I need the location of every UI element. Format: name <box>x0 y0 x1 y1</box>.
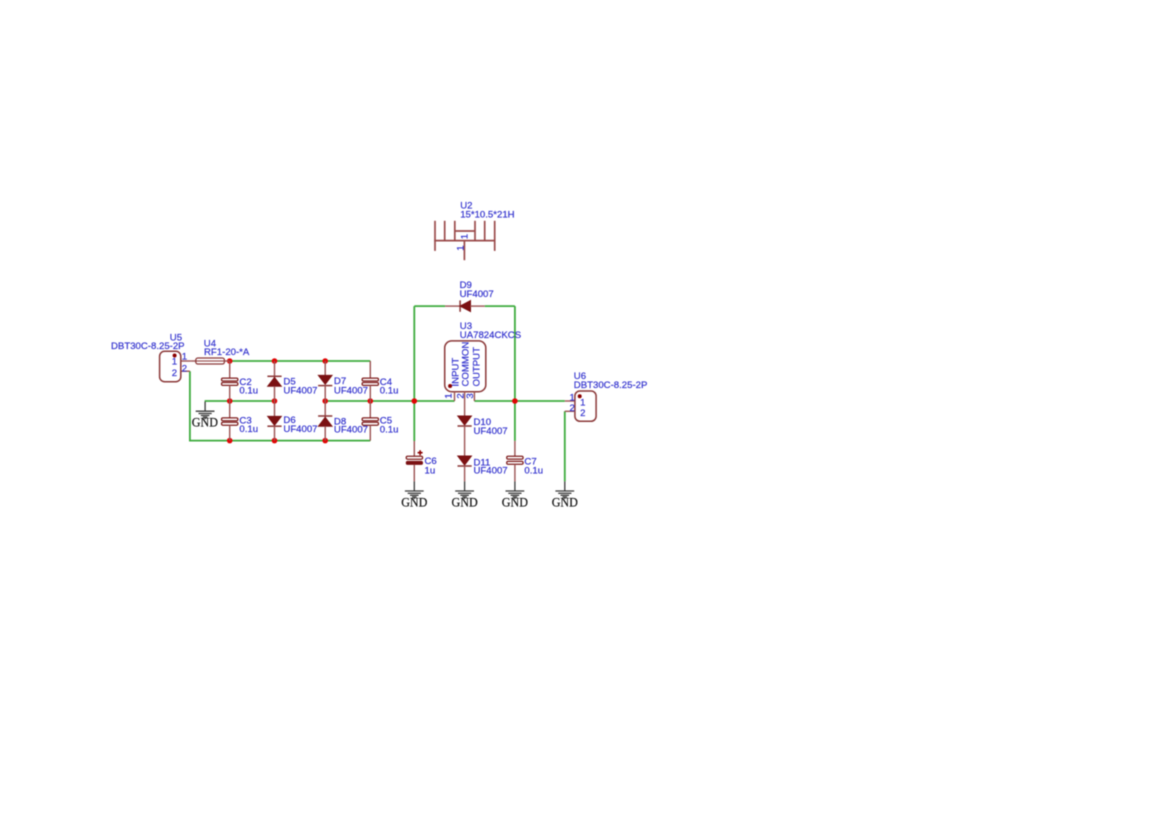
regulator U3 UA7824CKCS <box>444 321 522 416</box>
svg-text:DBT30C-8.25-2P: DBT30C-8.25-2P <box>574 380 648 391</box>
svg-text:RF1-20-*A: RF1-20-*A <box>204 347 250 358</box>
svg-text:15*10.5*21H: 15*10.5*21H <box>460 210 514 221</box>
node D5 top junction <box>272 358 278 364</box>
diode D6 UF4007 (pointing down) <box>267 401 317 441</box>
wire middle rail segment C (U3 pin3 to U6 pin1) <box>474 400 564 402</box>
node fuse/C2 top junction <box>227 358 233 364</box>
svg-text:0.1u: 0.1u <box>380 424 399 435</box>
svg-text:3: 3 <box>465 393 476 398</box>
svg-text:UF4007: UF4007 <box>283 386 317 397</box>
svg-text:1: 1 <box>460 234 471 239</box>
svg-text:1: 1 <box>444 393 455 398</box>
wire middle rail segment B (D7/D8 node to U3 pin1) <box>325 400 454 402</box>
svg-text:UF4007: UF4007 <box>334 386 368 397</box>
connector U6 DBT30C-8.25-2P <box>565 371 648 422</box>
svg-text:GND: GND <box>552 496 578 510</box>
svg-text:2: 2 <box>172 368 177 379</box>
wire D9 right lead connection <box>485 305 515 307</box>
svg-text:1: 1 <box>580 397 585 408</box>
svg-text:1: 1 <box>570 392 575 403</box>
svg-text:0.1u: 0.1u <box>524 465 543 476</box>
capacitor C2 0.1u <box>222 361 259 401</box>
connector U5 DBT30C-8.25-2P <box>111 333 191 382</box>
fuse U4 RF1-20-*A <box>191 338 250 364</box>
node C6 mid junction <box>412 398 418 404</box>
svg-text:UF4007: UF4007 <box>460 289 494 300</box>
diode D10 UF4007 (pointing down) <box>458 416 508 456</box>
node D6 bottom junction <box>272 438 278 444</box>
ground symbol left <box>196 402 215 419</box>
capacitor C5 0.1u <box>362 401 398 441</box>
svg-text:0.1u: 0.1u <box>239 424 258 435</box>
svg-text:UA7824CKCS: UA7824CKCS <box>460 330 521 341</box>
svg-text:UF4007: UF4007 <box>474 466 508 477</box>
node C2/C3 mid junction <box>227 398 233 404</box>
svg-text:UF4007: UF4007 <box>474 426 508 437</box>
node D8 bottom junction <box>322 438 328 444</box>
svg-text:2: 2 <box>580 408 585 419</box>
svg-text:GND: GND <box>451 496 477 510</box>
svg-text:2: 2 <box>182 363 187 374</box>
node D7 top junction <box>322 358 328 364</box>
svg-text:0.1u: 0.1u <box>239 386 258 397</box>
diode D7 UF4007 (pointing down) <box>318 361 368 401</box>
ground symbol under C6 <box>405 481 424 498</box>
svg-text:DBT30C-8.25-2P: DBT30C-8.25-2P <box>111 341 185 352</box>
node C4/C5 mid junction <box>368 398 374 404</box>
capacitor C7 0.1u <box>507 441 543 482</box>
svg-text:2: 2 <box>570 403 575 414</box>
svg-text:1: 1 <box>172 357 177 368</box>
wire middle rail segment A (GND to D5/D6 node) <box>205 400 275 402</box>
svg-text:GND: GND <box>502 496 528 510</box>
svg-text:COMMON: COMMON <box>460 342 471 387</box>
svg-text:0.1u: 0.1u <box>380 386 399 397</box>
svg-text:OUTPUT: OUTPUT <box>472 347 483 387</box>
svg-text:GND: GND <box>192 415 218 429</box>
ground symbol under D11 <box>455 481 474 498</box>
wire bottom rail (U5 pin2 to C5) <box>190 371 370 440</box>
node C2/C3 bottom junction <box>227 438 233 444</box>
transformer U2 15*10.5*21H <box>434 221 495 260</box>
wire D9 left lead connection <box>414 305 445 307</box>
ground symbol under C7 <box>506 481 525 498</box>
wire D9 loop right drop (to C7 node) <box>514 306 516 441</box>
svg-text:UF4007: UF4007 <box>283 424 317 435</box>
node C7 mid junction <box>512 398 518 404</box>
wire U6 pin2 to GND <box>564 411 566 481</box>
capacitor C4 0.1u <box>362 361 398 401</box>
capacitor C3 0.1u <box>222 401 259 441</box>
svg-text:UF4007: UF4007 <box>334 425 368 436</box>
svg-text:1u: 1u <box>425 465 436 476</box>
svg-text:GND: GND <box>401 496 427 510</box>
diode D5 UF4007 (pointing up) <box>267 361 317 401</box>
svg-text:1: 1 <box>455 245 466 250</box>
svg-text:1: 1 <box>182 352 187 363</box>
diode D9 UF4007 (pointing left) <box>445 280 494 312</box>
ground symbol under U6 pin2 <box>555 481 574 498</box>
node D7/D8 mid junction <box>322 398 328 404</box>
diode D11 UF4007 (pointing down) <box>458 456 508 481</box>
wire top rail (fuse output to C4) <box>230 360 371 362</box>
node D5/D6 mid junction <box>272 398 278 404</box>
wire D9 loop left drop (to C6 node) <box>413 306 415 441</box>
capacitor C6 1u (polarized) <box>406 441 437 481</box>
diode D8 UF4007 (pointing up) <box>318 401 368 441</box>
